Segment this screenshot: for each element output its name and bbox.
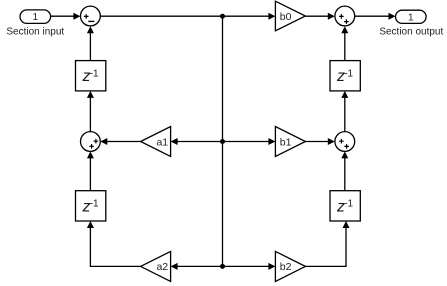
- junction node middle (bus tap): [220, 139, 225, 144]
- wire: b1 output to S4 left input: [305, 138, 334, 145]
- gain b0 (triangle): [275, 1, 305, 31]
- svg-text:1: 1: [408, 12, 414, 23]
- svg-text:Section input: Section input: [6, 26, 64, 37]
- input port 1 (Section input): [6, 10, 64, 37]
- wire: Z2 output up to S3 bottom: [87, 151, 94, 190]
- svg-text:-1: -1: [90, 199, 99, 210]
- gain b1 (right-pointing triangle): [275, 127, 305, 157]
- gain b2 (right-pointing triangle): [275, 251, 305, 281]
- wire: bus bottom tap to a2 input: [171, 263, 223, 270]
- wire: S2 to output port: [355, 13, 396, 20]
- wire: Z1 output up to S1 bottom: [87, 26, 94, 60]
- gain a2 (left-pointing triangle): [141, 251, 171, 281]
- wire: bus bottom tap to b2 input: [223, 263, 276, 270]
- wire: bus middle tap to a1 input: [171, 138, 223, 145]
- gain a1 (left-pointing triangle): [141, 127, 171, 157]
- svg-text:b1: b1: [280, 136, 292, 148]
- svg-text:1: 1: [33, 12, 39, 23]
- svg-text:b0: b0: [280, 11, 292, 23]
- junction node bottom (bus tap): [220, 264, 225, 269]
- svg-text:Section output: Section output: [379, 27, 443, 38]
- wire: center vertical bus: [222, 16, 224, 266]
- delay Z1 (upper-left z^-1): [76, 61, 106, 91]
- sum S3 (+ right, + bottom): [81, 132, 101, 152]
- output port 1 (Section output): [379, 10, 443, 37]
- wire: b0 to sum S2: [305, 13, 334, 20]
- wire: Z3 output up to S2 bottom: [341, 26, 348, 60]
- wire: S1 output to gain b0: [100, 13, 275, 20]
- wire: a2 output left then up to Z2 bottom: [87, 221, 141, 266]
- sum S4 (+ left, + bottom): [335, 132, 355, 152]
- junction node top (bus tap): [220, 14, 225, 19]
- delay Z3 (upper-right z^-1): [330, 61, 360, 91]
- svg-text:a1: a1: [156, 136, 168, 148]
- wire: input port to sum S1: [51, 13, 81, 20]
- svg-text:-1: -1: [344, 69, 353, 80]
- wire: S3 output up to Z1 bottom: [87, 91, 94, 132]
- svg-text:a2: a2: [156, 261, 168, 273]
- wire: Z4 output up to S4 bottom: [341, 151, 348, 190]
- wire: b2 output right then up to Z4 bottom: [305, 221, 349, 266]
- svg-text:-1: -1: [344, 199, 353, 210]
- wire: S4 output up to Z3 bottom: [341, 91, 348, 132]
- wire: bus middle tap to b1 input: [223, 138, 276, 145]
- delay Z4 (lower-right z^-1): [330, 191, 360, 221]
- wire: a1 output to S3 right input: [100, 138, 140, 145]
- svg-text:-1: -1: [90, 69, 99, 80]
- delay Z2 (lower-left z^-1): [76, 191, 106, 221]
- svg-text:b2: b2: [280, 261, 292, 273]
- sum S2 (+ left, + bottom): [335, 6, 355, 26]
- sum S1 (+ left, - bottom): [81, 6, 101, 26]
